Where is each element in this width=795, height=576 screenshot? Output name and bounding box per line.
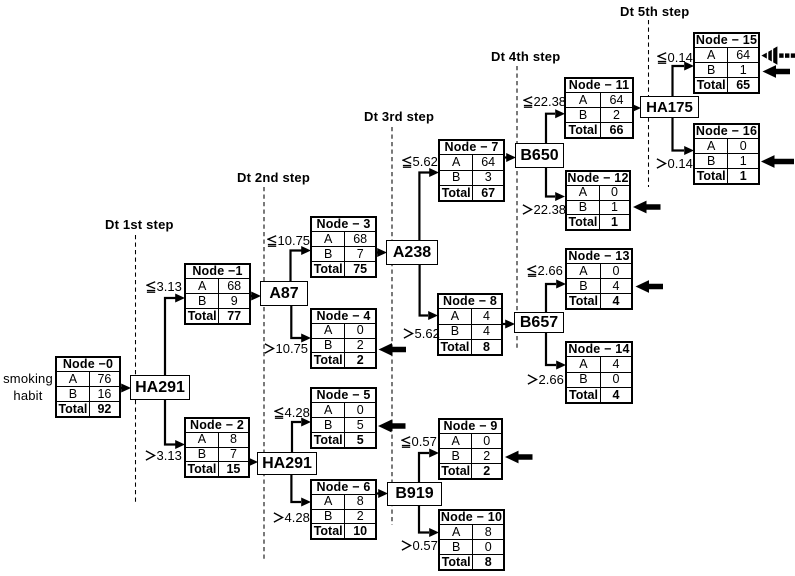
step label Dt 4th step (491, 49, 560, 64)
threshold ≤3.13 into Node-1 (146, 281, 182, 293)
decision node table 5 (Node &#8722; 5) (310, 387, 377, 449)
wire Node-7 to B650 (504, 153, 516, 162)
step label Dt 2nd step (237, 170, 310, 185)
decision node table 13 (Node &#8722; 13) (565, 248, 633, 310)
threshold >3.13 into Node-2 (145, 450, 182, 462)
wire Node-8 to B657 (502, 320, 515, 329)
wire B657 up to Node-13 (546, 280, 566, 314)
step label Dt 3rd step (364, 109, 434, 124)
wire A87 up to Node-3 (291, 246, 312, 282)
class arrow at Node-15 B row (763, 65, 791, 78)
root label: smoking habit (0, 370, 56, 404)
threshold ≤22.38 into Node-11 (523, 96, 566, 108)
decision node table 2 (Node &#8722; 2) (184, 417, 250, 478)
class arrow at Node-12 B row (633, 201, 661, 214)
wire HA291 up to Node-1 (165, 294, 185, 377)
step label Dt 1st step (105, 217, 174, 232)
decision node table 1 (Node &#8722;1) (184, 263, 251, 325)
dashed class arrow at Node-15 A row (761, 46, 795, 64)
class arrow at Node-13 B row (636, 280, 664, 293)
wire Node-11 to HA175 (631, 104, 641, 113)
threshold ≤0.57 into Node-9 (401, 436, 437, 448)
decision node table 0 (Node &#8722;0) (55, 356, 121, 418)
class arrow at Node-5 B row (378, 420, 406, 433)
decision node table 10 (Node &#8722; 10) (438, 509, 505, 571)
split variable box B650 (B650) (515, 143, 564, 168)
decision node table 12 (Node &#8722; 12) (565, 170, 631, 231)
threshold ≤0.14 into Node-15 (657, 52, 693, 64)
split variable box B919 (B919) (387, 482, 442, 506)
class arrow at Node-9 B row (505, 451, 533, 464)
decision node table 4 (Node &#8722; 4) (310, 308, 377, 369)
step label Dt 5th step (620, 4, 689, 19)
wire A238 up to Node-7 (419, 168, 439, 241)
wire B657 down to Node-14 (546, 333, 566, 370)
decision node table 15 (Node &#8722; 15) (693, 32, 760, 94)
threshold >22.38 into Node-12 (522, 204, 566, 216)
threshold >4.28 into Node-6 (273, 512, 310, 524)
decision node table 8 (Node &#8722; 8) (437, 293, 503, 356)
wire Node-1 to A87 (250, 292, 261, 301)
split variable box B657 (B657) (514, 312, 564, 333)
class arrow at Node-4 B row (379, 343, 407, 356)
split variable box HA175 (HA175) (640, 96, 699, 118)
wire HA175 down to Node-16 (673, 118, 695, 155)
decision node table 14 (Node &#8722; 14) (565, 341, 633, 404)
threshold ≤5.62 into Node-7 (402, 156, 438, 168)
wire A238 down to Node-8 (420, 264, 438, 320)
step 2 dashed boundary line (263, 187, 265, 560)
decision node table 3 (Node &#8722; 3) (310, 216, 377, 278)
wire HA291 down to Node-2 (165, 399, 185, 449)
threshold >2.66 into Node-14 (527, 374, 564, 386)
wire Node-6 to B919 (376, 489, 388, 498)
decision node table 9 (Node &#8722; 9) (438, 418, 503, 480)
split variable box A238 (A238) (386, 240, 438, 265)
decision node table 11 (Node &#8722; 11) (564, 77, 634, 139)
wire B919 up to Node-9 (419, 449, 439, 484)
split variable box HA291b (HA291) (257, 452, 317, 475)
wire HA175 up to Node-15 (673, 62, 695, 98)
wire A87 down to Node-4 (291, 305, 311, 343)
wire Node-0 to HA291 (121, 384, 131, 393)
wire B650 down to Node-12 (546, 167, 565, 201)
wire HA291 lower up to Node-5 (292, 418, 311, 454)
threshold ≤2.66 into Node-13 (527, 265, 563, 277)
wire HA291 lower down to Node-6 (291, 474, 311, 507)
decision node table 6 (Node &#8722; 6) (310, 479, 377, 540)
split variable box HA291a (HA291) (130, 375, 190, 400)
decision node table 7 (Node &#8722; 7) (438, 139, 505, 202)
step 4 dashed boundary line (516, 66, 518, 351)
split variable box A87 (A87) (260, 281, 308, 306)
threshold ≤10.75 into Node-3 (267, 235, 310, 247)
wire B650 up to Node-11 (546, 109, 565, 144)
threshold >0.57 into Node-10 (401, 540, 438, 552)
step 3 dashed boundary line (391, 127, 393, 525)
threshold ≤4.28 into Node-5 (274, 407, 310, 419)
decision node table 16 (Node &#8722; 16) (693, 123, 760, 185)
threshold >0.14 into Node-16 (656, 158, 693, 170)
threshold >10.75 into Node-4 (264, 343, 308, 355)
wire Node-2 to HA291 lower (248, 458, 258, 467)
wire B919 down to Node-10 (419, 505, 439, 537)
threshold >5.62 into Node-8 (403, 328, 440, 340)
wire Node-3 to A238 (377, 248, 387, 257)
class arrow at Node-16 B row (761, 155, 794, 168)
step 1 dashed boundary line (135, 235, 137, 505)
step 5 dashed boundary line (648, 20, 650, 187)
